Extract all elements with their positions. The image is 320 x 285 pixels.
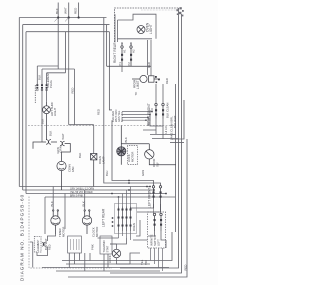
element box bbox=[34, 236, 41, 252]
svg-text:RED: RED bbox=[73, 7, 77, 14]
svg-text:GRN: GRN bbox=[141, 170, 145, 176]
wire indicator drops bbox=[151, 248, 163, 271]
wire bottom bus y260.5 bbox=[62, 232, 172, 261]
wire L2 supply stub bbox=[78, 3, 80, 18]
oven light lamp bbox=[137, 26, 145, 34]
indicator lights box bbox=[148, 212, 166, 248]
wire bottom bus y271 bbox=[56, 270, 160, 272]
svg-text:BLK: BLK bbox=[41, 119, 45, 124]
svg-text:SW: SW bbox=[155, 162, 159, 167]
broil connector right bbox=[60, 141, 70, 158]
svg-text:STAT: STAT bbox=[105, 245, 109, 252]
wire console enclosure dashed bbox=[29, 197, 112, 269]
svg-text:BLK: BLK bbox=[49, 131, 53, 136]
bus labels bbox=[70, 187, 94, 197]
svg-text:H2: H2 bbox=[132, 49, 136, 53]
element contact pair bbox=[42, 242, 46, 246]
svg-text:BLK: BLK bbox=[38, 75, 42, 80]
wire left front drops bbox=[130, 204, 161, 212]
wire bottom bus y264 bbox=[66, 263, 150, 265]
svg-text:VIO: VIO bbox=[144, 259, 148, 265]
wire N supply stub bbox=[65, 3, 69, 22]
connector B1 bbox=[35, 18, 93, 154]
wire left riser x26 bbox=[25, 32, 27, 194]
door switch bbox=[121, 144, 176, 165]
wire top bus y24.6 bbox=[23, 24, 110, 26]
svg-text:RED: RED bbox=[165, 78, 169, 84]
connector B1 contacts bbox=[36, 84, 47, 88]
svg-text:WHT: WHT bbox=[61, 133, 65, 140]
svg-text:MOTOR: MOTOR bbox=[95, 227, 99, 237]
junction dots top bbox=[57, 16, 80, 18]
svg-text:MOTOR: MOTOR bbox=[130, 152, 134, 162]
svg-text:LIGHT: LIGHT bbox=[149, 24, 153, 34]
svg-text:P1: P1 bbox=[118, 62, 122, 66]
B1 terminal circles bbox=[36, 89, 47, 91]
svg-text:P2: P2 bbox=[127, 62, 131, 66]
svg-text:LEFT FRONT: LEFT FRONT bbox=[148, 187, 152, 208]
wire dashed top right y8 bbox=[115, 8, 180, 42]
wire right riser x178.5 bbox=[120, 8, 179, 268]
corner stamp bbox=[176, 7, 183, 16]
switch left front bbox=[152, 186, 161, 204]
svg-text:BRN 9 PNK: BRN 9 PNK bbox=[70, 194, 84, 197]
svg-text:TC: TC bbox=[134, 92, 138, 96]
svg-text:H1: H1 bbox=[123, 49, 127, 53]
timer motor bbox=[51, 210, 60, 234]
svg-text:BLK: BLK bbox=[78, 153, 82, 158]
svg-text:LIMIT: LIMIT bbox=[136, 80, 140, 89]
wire top bus y17.5 bbox=[19, 17, 106, 19]
svg-text:BLK: BLK bbox=[124, 137, 128, 142]
svg-text:RED: RED bbox=[47, 244, 51, 250]
svg-text:BLK: BLK bbox=[55, 8, 59, 14]
svg-text:LAMP: LAMP bbox=[101, 156, 105, 164]
wire right riser x181.5 bbox=[110, 14, 182, 273]
svg-text:LEFT: LEFT bbox=[157, 239, 161, 246]
svg-text:BLU VIO: BLU VIO bbox=[120, 112, 124, 122]
wire main bus y193.5 bbox=[26, 193, 166, 195]
svg-text:PLUG: PLUG bbox=[49, 80, 53, 88]
wire chassis dashed y125.5 bbox=[28, 125, 176, 127]
wire main bus y197 bbox=[45, 196, 176, 198]
svg-text:RED: RED bbox=[97, 109, 101, 115]
selector contacts bbox=[112, 209, 132, 227]
wire riser x109.4 bbox=[109, 32, 112, 110]
hot surface light bbox=[43, 102, 51, 140]
top tick text row bbox=[141, 9, 178, 11]
svg-text:GRN: GRN bbox=[56, 147, 60, 153]
bake connector left bbox=[33, 140, 57, 149]
clock motor bbox=[82, 210, 91, 234]
clock labels rows bbox=[44, 238, 51, 250]
wire right front drops bbox=[143, 110, 179, 139]
svg-text:PNK: PNK bbox=[91, 244, 95, 250]
wire riser x58.2 bbox=[57, 18, 59, 70]
selector feeders bbox=[119, 187, 131, 241]
svg-text:RED: RED bbox=[147, 62, 151, 68]
wire top bus y31.7 bbox=[26, 31, 109, 33]
svg-text:RIGHT REAR: RIGHT REAR bbox=[113, 42, 117, 63]
switch left rear bbox=[153, 204, 162, 231]
oven light box bbox=[118, 14, 157, 39]
wire riser x65.5 bbox=[65, 32, 67, 73]
bus junction dots bbox=[111, 111, 153, 198]
wire L1 supply stub bbox=[55, 3, 59, 22]
clock box bbox=[68, 236, 82, 253]
lock motor bbox=[117, 126, 126, 156]
wire left riser x22.7 bbox=[22, 25, 24, 190]
terminal block TB1 bbox=[122, 108, 152, 126]
selector switch block bbox=[115, 204, 137, 234]
wire main bus y186.5 bbox=[19, 186, 150, 188]
label TB1 rows bbox=[111, 110, 124, 122]
high limit thermostat bbox=[132, 75, 160, 82]
wire riser x112 feeder bbox=[112, 120, 154, 185]
wire riser x106.6 bbox=[106, 25, 108, 67]
lock motor frame bbox=[128, 146, 138, 165]
wire right rear feeders bbox=[115, 14, 131, 72]
svg-text:LEFT REAR: LEFT REAR bbox=[102, 208, 106, 227]
fan motor bbox=[57, 158, 66, 190]
svg-text:WHT: WHT bbox=[63, 7, 67, 14]
svg-text:LIGHT: LIGHT bbox=[53, 107, 57, 116]
svg-text:OVEN: OVEN bbox=[132, 223, 136, 231]
bus end dots bbox=[149, 186, 167, 195]
wire right stub x184 bbox=[172, 100, 184, 139]
svg-text:BLU: BLU bbox=[105, 171, 109, 176]
wire left riser x19 bbox=[18, 18, 20, 187]
wire main bus y190 bbox=[23, 189, 154, 191]
svg-text:DIAGRAM NO. B1D4PGSB-60: DIAGRAM NO. B1D4PGSB-60 bbox=[20, 194, 25, 281]
svg-text:BLK WHT: BLK WHT bbox=[173, 115, 177, 128]
svg-text:ELEMENT: ELEMENT bbox=[38, 239, 40, 250]
left rear aux box bbox=[100, 236, 112, 254]
wire right riser x187 bottom corner bbox=[68, 139, 187, 277]
switch right front bbox=[155, 103, 164, 118]
door lock lamp bbox=[112, 249, 120, 257]
svg-text:RED: RED bbox=[71, 88, 75, 94]
wire right riser x175.5 bbox=[175, 84, 177, 232]
wire console drops bottom bbox=[30, 187, 166, 272]
svg-text:RED: RED bbox=[184, 265, 188, 271]
switch right rear bbox=[107, 46, 151, 66]
oven lamp diamond bbox=[91, 154, 97, 187]
svg-text:BLK CLEAN: BLK CLEAN bbox=[166, 103, 170, 118]
wire right h142 bbox=[170, 142, 184, 144]
wire riser x103.8 bbox=[104, 18, 161, 186]
wire red risers mid bbox=[148, 40, 164, 103]
wire bottom bus y267.5 bbox=[42, 267, 169, 269]
svg-text:HI LO: HI LO bbox=[164, 125, 168, 133]
svg-text:LOCK: LOCK bbox=[108, 255, 112, 263]
svg-text:FAN: FAN bbox=[71, 167, 75, 172]
